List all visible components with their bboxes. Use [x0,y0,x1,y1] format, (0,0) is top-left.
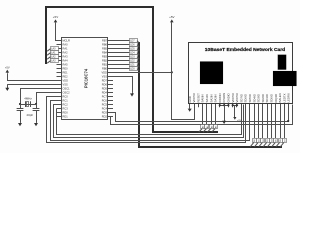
pin 3 RA1 (left) [57,48,62,50]
node bus entry card pin 22 SD6 [280,104,282,138]
network card module body [189,43,293,104]
svg-text:LD6: LD6 [130,43,135,46]
pin 38 RB5 (right) [108,48,113,50]
ground arrow under tie 8-10 [224,105,226,121]
pin 22 RD3 (right) [108,112,113,114]
svg-text:+5V: +5V [5,65,10,69]
RJ45 jack on card (black block) [273,71,297,86]
svg-text:LA2: LA2 [51,55,56,58]
capacitor C1 22pF [20,104,22,108]
ground arrow on card pin 1 [189,104,191,109]
node LD3 bus entry on RB3 [113,56,130,58]
svg-text:RD3: RD3 [102,110,108,114]
svg-text:LA1: LA1 [51,51,56,54]
wire VDD pin 11 to +5V [8,74,57,81]
svg-text:4MHz: 4MHz [24,97,32,101]
svg-text:RB5: RB5 [102,46,108,50]
node bus entry card pin 18 SD2 [262,104,264,138]
svg-text:VSS: VSS [63,82,68,86]
svg-text:RE1: RE1 [63,70,69,74]
pin 25 RC6 (right) [108,100,113,102]
node junction pin 12 [236,104,238,106]
capacitor C2 22pF [36,104,38,108]
pin 29 RD6 (right) [108,84,113,86]
node LD2 bus entry on RB2 [113,60,130,62]
IC chip on card (black block) [200,62,223,85]
svg-text:LA3: LA3 [51,59,56,62]
node LD6 bus entry on RB6 [113,44,130,46]
pin 16 RC1 (left) [57,100,62,102]
pin 11 VDD (left) [57,80,62,82]
svg-text:RE2: RE2 [63,74,69,78]
node bus entry card pin 23 SD7 [284,104,286,138]
IC U1 PIC16C74 microcontroller body [62,38,108,120]
svg-text:LA0: LA0 [51,47,56,50]
pin 32 VDD (right) [108,72,113,74]
pin 39 RB6 (right) [108,44,113,46]
ground arrow under C2 [36,122,38,125]
pin 6 RA4 (left) [57,60,62,62]
wire OSC1 to crystal [21,89,57,105]
pin 18 RC3 (left) [57,108,62,110]
wire RC0 to card pin 14 [47,97,246,143]
svg-text:+5V: +5V [237,120,242,123]
svg-text:20pF: 20pF [27,113,34,117]
svg-text:RC5: RC5 [102,102,108,106]
pin 13 OSC1 (left) [57,88,62,90]
svg-text:RD1: RD1 [63,114,69,118]
node LD7 bus entry on RB7 [113,40,130,42]
svg-text:VSS: VSS [102,74,107,78]
node junction left of crystal [19,103,21,105]
wire bus B (address bus: left RA pins over top to network card) [46,7,218,132]
wire tie card pins 8-10 [219,104,221,105]
pin 40 RB7 (right) [108,40,113,42]
svg-text:RD0: RD0 [63,110,69,114]
wire tie card pins 11-12 [232,104,234,105]
wire VDD pin 32 to +5V rail [113,72,172,74]
pin 9 RE1 (left) [57,72,62,74]
wire OSC2 to crystal [37,93,57,105]
node bus entry card pin 17 SD1 [258,104,260,138]
svg-text:VDD: VDD [63,78,69,82]
node LA1 bus entry on RA2 [51,52,62,54]
node junction VDD/+5V [171,71,173,73]
svg-text:LD5: LD5 [130,47,135,50]
svg-text:RC7: RC7 [102,94,108,98]
pin 4 RA2 (left) [57,52,62,54]
pin 28 RD5 (right) [108,88,113,90]
pin 37 RB4 (right) [108,52,113,54]
node junction pin 11 [232,104,234,106]
svg-text:OSC1: OSC1 [63,86,71,90]
node junction pin 8 [219,104,221,106]
pin 19 RD0 (left) [57,112,62,114]
wire RD3 to card pin 24 [113,105,289,122]
svg-text:MCLR: MCLR [63,38,70,42]
node junction pin 10 [227,104,229,106]
pin 17 RC2 (left) [57,104,62,106]
transformer on card (black bar) [278,55,286,70]
svg-text:RC3: RC3 [63,106,69,110]
pin 26 RC7 (right) [108,96,113,98]
node bus entry card pin 4 [202,104,204,124]
svg-text:RB7: RB7 [102,38,108,42]
wire RD2 to card right pin [109,105,293,125]
pin 27 RD4 (right) [108,92,113,94]
node bus entry card pin 7 [215,104,217,124]
wire +5V to MCLR pin [56,23,57,41]
wire RC3 to card pin 13 [57,105,242,135]
node junction pin 9 [223,104,225,106]
node LD5 bus entry on RB5 [113,48,130,50]
node junction RD3/card pin [287,120,289,122]
node bus entry card pin 20 SD4 [271,104,273,138]
pin 1 MCLR (left) [57,40,62,42]
node LA3 bus entry on RA4 [51,60,62,62]
svg-text:RC0: RC0 [63,94,69,98]
node LD1 bus entry on RB1 [113,64,130,66]
ground arrow left on VSS pin 12 [8,84,57,86]
pin 36 RB3 (right) [108,56,113,58]
pin 10 RE2 (left) [57,76,62,78]
ground arrow on VSS pin 31 [132,93,134,94]
node LD4 bus entry on RB4 [113,52,130,54]
pin 34 RB1 (right) [108,64,113,66]
svg-text:RB0: RB0 [102,66,108,70]
wire RC1 to card pin 15 [51,101,250,141]
node bus entry card pin 6 [211,104,213,124]
svg-text:RB1: RB1 [102,62,108,66]
svg-text:RD2: RD2 [102,114,108,118]
svg-text:RD5: RD5 [102,86,108,90]
svg-text:LD3: LD3 [130,55,135,58]
svg-text:RD7: RD7 [102,78,108,82]
svg-text:+5V: +5V [53,15,58,19]
svg-text:RE0: RE0 [63,66,69,70]
pin 24 RC5 (right) [108,104,113,106]
svg-text:+5V: +5V [169,15,174,19]
svg-text:LD1: LD1 [130,63,135,66]
svg-text:OSC2: OSC2 [63,90,71,94]
svg-text:RB6: RB6 [102,42,108,46]
wire RC2 to card pin [54,105,244,138]
node bus entry card pin 21 SD5 [275,104,277,138]
svg-text:10BaseT Embedded Network Card: 10BaseT Embedded Network Card [205,47,285,53]
power +5V tap under tie 11-12 [234,105,236,117]
node LD0 bus entry on RB0 [113,68,130,70]
svg-text:RA1: RA1 [63,46,69,50]
wire bus A (data bus: RB pins down right side to card bottom) [139,42,282,147]
pin 8 RE0 (left) [57,68,62,70]
svg-text:LD4: LD4 [130,51,135,54]
svg-text:LEDRX: LEDRX [287,93,291,102]
pin 14 OSC2 (left) [57,92,62,94]
pin 21 RD2 (right) [108,116,113,118]
node bus entry card pin 16 SD0 [254,104,256,138]
node bus entry card pin 19 SD3 [267,104,269,138]
svg-text:RA3: RA3 [63,54,69,58]
pin 15 RC0 (left) [57,96,62,98]
svg-text:RC6: RC6 [102,98,108,102]
node LA2 bus entry on RA3 [51,56,62,58]
svg-text:RA4: RA4 [63,58,69,62]
pin 20 RD1 (left) [57,116,62,118]
svg-text:RB3: RB3 [102,54,108,58]
pin 31 VSS (right) [108,76,113,78]
svg-text:RD4: RD4 [102,90,108,94]
pin 23 RC4 (right) [108,108,113,110]
svg-text:RA2: RA2 [63,50,69,54]
svg-text:RC2: RC2 [63,102,69,106]
svg-text:LD2: LD2 [130,59,135,62]
svg-text:RC4: RC4 [102,106,108,110]
svg-text:VDD: VDD [102,70,108,74]
pin 5 RA3 (left) [57,56,62,58]
svg-text:RC1: RC1 [63,98,69,102]
svg-text:RB4: RB4 [102,50,108,54]
svg-text:RB2: RB2 [102,58,108,62]
svg-text:RA5: RA5 [63,62,69,66]
wire +5V down to card power pin [172,23,195,120]
node bus entry card pin 5 [206,104,208,124]
pin 33 RB0 (right) [108,68,113,70]
pin 35 RB2 (right) [108,60,113,62]
svg-text:LD7: LD7 [130,39,135,42]
pin 7 RA5 (left) [57,64,62,66]
node junction right of crystal [35,103,37,105]
wire VSS pin 31 to ground [113,77,133,93]
pin 12 VSS (left) [57,84,62,86]
pin 2 RA0 (left) [57,44,62,46]
pin 30 RD7 (right) [108,80,113,82]
svg-text:PIC16C74: PIC16C74 [84,68,89,88]
node LA0 bus entry on RA1 [51,48,62,50]
wire crystal top rail [20,104,36,106]
svg-text:LD0: LD0 [130,67,135,70]
ground arrow under C1 [20,122,22,125]
svg-text:RA0: RA0 [63,42,69,46]
svg-text:RD6: RD6 [102,82,108,86]
